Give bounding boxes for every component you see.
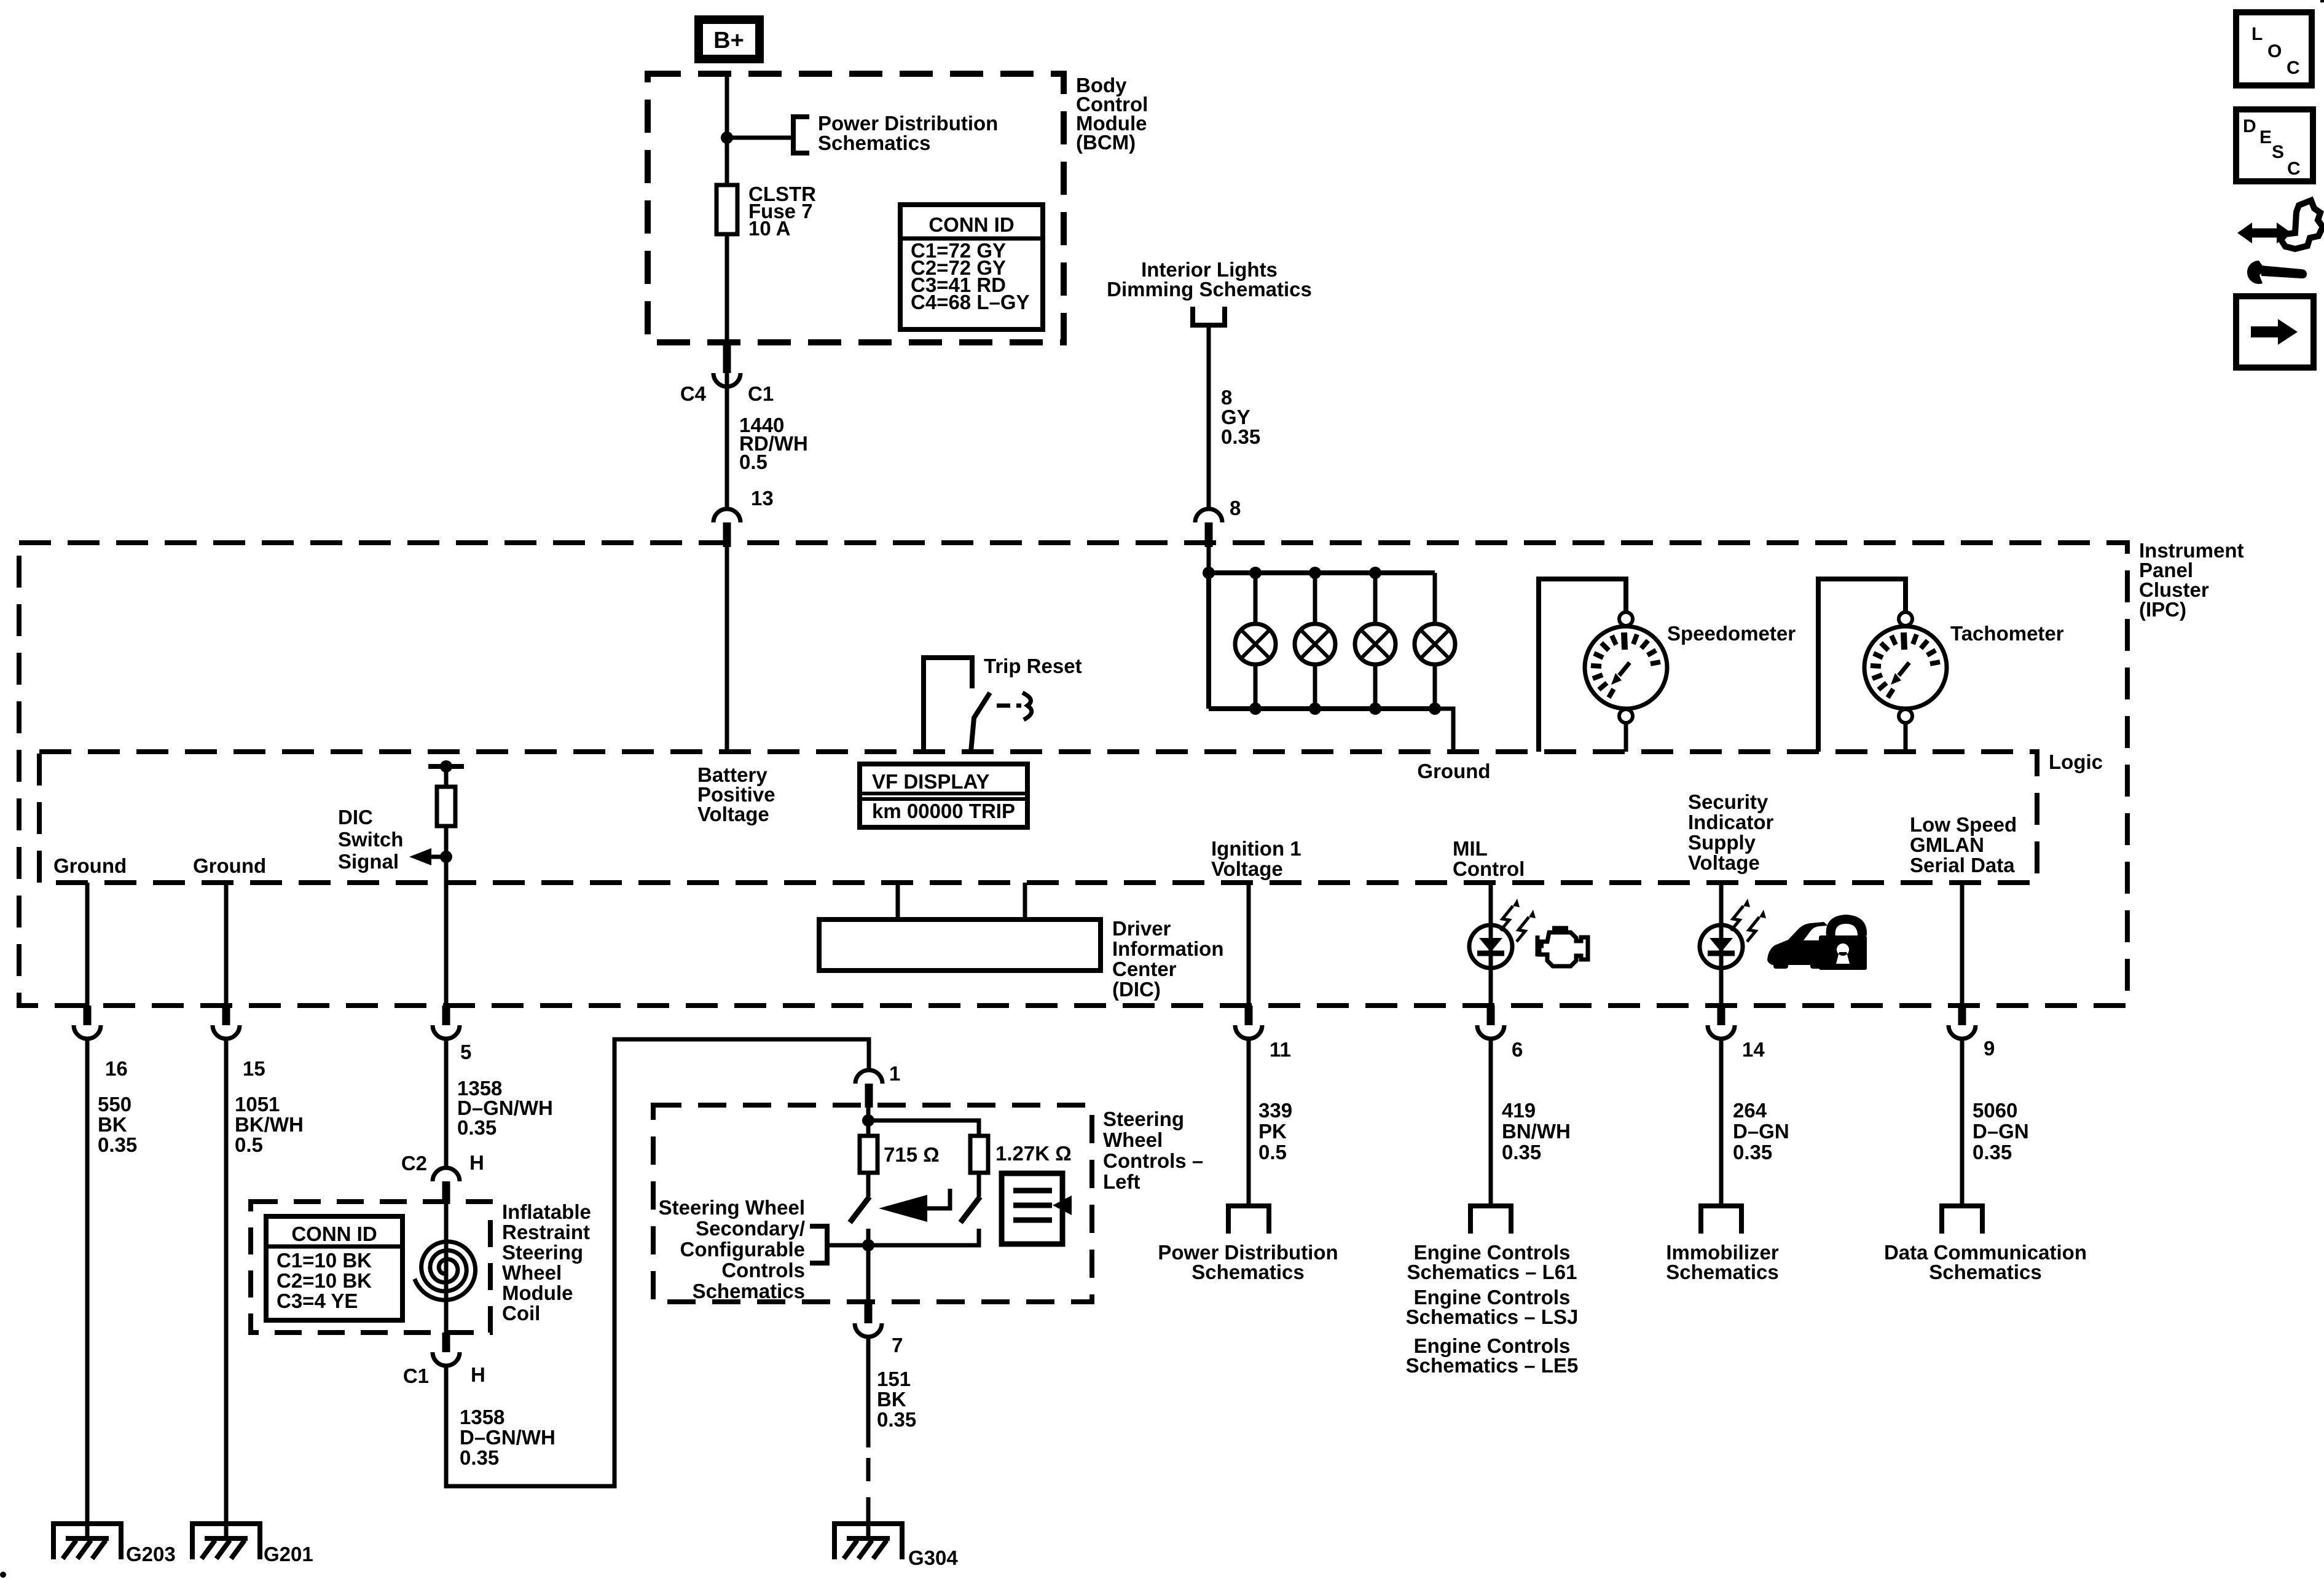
tachometer circuit wire bbox=[1818, 579, 1906, 752]
svg-text:G304: G304 bbox=[908, 1546, 958, 1569]
svg-text:8: 8 bbox=[1230, 497, 1241, 519]
connector pin 7 arc bbox=[855, 1323, 882, 1337]
wire into coil bbox=[444, 1203, 449, 1333]
junction dot lamp feed bbox=[1203, 567, 1215, 579]
svg-text:(BCM): (BCM) bbox=[1076, 131, 1136, 154]
svg-text:C2: C2 bbox=[401, 1152, 427, 1175]
svg-text:Schematics – LSJ: Schematics – LSJ bbox=[1406, 1305, 1579, 1328]
svg-text:Wheel: Wheel bbox=[502, 1261, 562, 1284]
off-page connector to Data Communication Schematics bbox=[1942, 1206, 1982, 1234]
svg-text:0.35: 0.35 bbox=[1733, 1141, 1772, 1164]
keypad icon bbox=[1002, 1173, 1062, 1244]
connector C4/C1 arc bbox=[713, 373, 740, 387]
svg-text:(IPC): (IPC) bbox=[2139, 598, 2186, 621]
svg-text:Control: Control bbox=[1453, 857, 1525, 880]
wire resistor 1.27K to switch 2 bbox=[977, 1173, 981, 1197]
svg-text:15: 15 bbox=[243, 1057, 265, 1080]
resistor DIC switch pull-up top bar bbox=[428, 764, 464, 769]
wire bracket to junction bbox=[827, 1243, 868, 1248]
svg-text:L: L bbox=[2251, 24, 2263, 44]
corner mark bbox=[2320, 0, 2324, 2]
svg-text:H: H bbox=[471, 1363, 485, 1386]
svg-text:VF DISPLAY: VF DISPLAY bbox=[872, 770, 989, 793]
wire pin 11 lower bbox=[1247, 1039, 1251, 1206]
fuse CLSTR Fuse 7 10 A bbox=[716, 185, 737, 234]
svg-text:G201: G201 bbox=[264, 1543, 313, 1565]
junction dot DIC switch signal bbox=[440, 851, 452, 863]
module box IPC (Instrument Panel Cluster) bbox=[19, 543, 2127, 1006]
svg-text:Voltage: Voltage bbox=[1211, 857, 1283, 880]
svg-text:Trip Reset: Trip Reset bbox=[984, 655, 1082, 677]
junction dot lamp 3 top bbox=[1369, 567, 1381, 579]
svg-text:Tachometer: Tachometer bbox=[1950, 622, 2064, 645]
stray dot bbox=[0, 1572, 6, 1578]
svg-text:km 00000 TRIP: km 00000 TRIP bbox=[872, 800, 1015, 822]
wire pin 14 lower bbox=[1719, 1039, 1724, 1206]
svg-text:BK: BK bbox=[98, 1113, 127, 1136]
junction dot B+ branch node bbox=[721, 132, 733, 144]
ground G203 bbox=[53, 1524, 121, 1559]
wire tachometer return bbox=[1904, 722, 1908, 752]
svg-text:Controls: Controls bbox=[721, 1259, 805, 1282]
svg-text:C4=68 L–GY: C4=68 L–GY bbox=[911, 291, 1030, 313]
wire fuse to BCM border bbox=[725, 234, 729, 342]
wire pin 11 ignition 1 voltage bbox=[1247, 883, 1251, 1006]
connector pin 13 arc bbox=[713, 509, 740, 522]
off-page connector Interior Lights bbox=[1193, 307, 1225, 325]
off-page connector Power Distribution Schematics bbox=[793, 117, 809, 153]
icon box arrow (next) bbox=[2236, 296, 2314, 368]
junction dot lamp 3 bottom bbox=[1369, 703, 1381, 715]
svg-text:14: 14 bbox=[1742, 1038, 1765, 1061]
wire branch to power distribution bbox=[727, 136, 793, 140]
svg-text:Center: Center bbox=[1112, 958, 1177, 980]
svg-text:Driver: Driver bbox=[1112, 917, 1171, 940]
svg-text:0.35: 0.35 bbox=[1502, 1141, 1541, 1164]
wire battery positive voltage bbox=[725, 547, 729, 752]
connector C2 stub bbox=[442, 1181, 450, 1203]
svg-text:Switch: Switch bbox=[338, 828, 403, 851]
wire to resistor 1.27K bbox=[868, 1120, 979, 1136]
module box Steering Wheel Controls - Left bbox=[653, 1105, 1092, 1302]
component box Driver Information Center bbox=[896, 883, 900, 919]
svg-text:GMLAN: GMLAN bbox=[1910, 833, 1984, 856]
svg-text:Indicator: Indicator bbox=[1688, 811, 1774, 833]
svg-text:Module: Module bbox=[502, 1282, 573, 1304]
svg-text:(DIC): (DIC) bbox=[1112, 978, 1161, 1001]
svg-text:Coil: Coil bbox=[502, 1302, 540, 1325]
wire switch return to pin 7 bbox=[866, 1245, 871, 1302]
wire switch1 lower contact bbox=[866, 1229, 871, 1245]
connector pin 8 arc bbox=[1195, 509, 1222, 522]
svg-text:419: 419 bbox=[1502, 1099, 1536, 1122]
svg-text:7: 7 bbox=[892, 1334, 903, 1357]
wire pin 6 lower bbox=[1489, 1039, 1493, 1206]
svg-text:H: H bbox=[469, 1151, 484, 1174]
svg-text:Logic: Logic bbox=[2049, 750, 2103, 773]
table CONN ID (coil) bbox=[266, 1216, 402, 1320]
connector C4/C1 stub bbox=[723, 342, 731, 373]
wire 151 BK dashed section bbox=[866, 1458, 871, 1509]
icon box LOC bbox=[2236, 12, 2312, 85]
table CONN ID (BCM) bbox=[900, 205, 1043, 329]
junction dot DIC pull-up bbox=[440, 760, 452, 773]
resistor 1.27K ohm bbox=[970, 1136, 988, 1173]
speedometer circuit wire bbox=[1539, 579, 1626, 752]
wire lamp left column bbox=[1206, 573, 1211, 709]
lamp E3 (illumination lamp) bbox=[1373, 573, 1378, 624]
svg-text:Schematics: Schematics bbox=[1666, 1261, 1778, 1283]
wire pin 5 DIC switch signal exit bbox=[444, 883, 449, 1006]
svg-text:DIC: DIC bbox=[338, 806, 373, 829]
icon box DESC bbox=[2236, 109, 2313, 181]
svg-text:Schematics: Schematics bbox=[1191, 1261, 1304, 1283]
wire lamp bottom bus bbox=[1209, 706, 1435, 711]
svg-text:BK: BK bbox=[877, 1388, 906, 1411]
wire 151 BK to G304 bbox=[866, 1337, 871, 1447]
svg-text:C1: C1 bbox=[748, 382, 774, 405]
junction dot switch return bbox=[862, 1239, 874, 1251]
svg-text:13: 13 bbox=[751, 487, 774, 510]
connector pin 8 stub bbox=[1205, 522, 1213, 547]
power symbol B+ bbox=[694, 15, 764, 63]
resistor 715 ohm bbox=[860, 1136, 877, 1173]
svg-text:Schematics – L61: Schematics – L61 bbox=[1407, 1261, 1577, 1283]
svg-text:0.5: 0.5 bbox=[235, 1133, 263, 1156]
switch blade SW2 bbox=[960, 1197, 980, 1223]
wire resistor to IPC exit bbox=[444, 826, 449, 883]
svg-text:E: E bbox=[2259, 127, 2272, 148]
junction dot lamp 4 bottom bbox=[1429, 703, 1441, 715]
svg-text:D–GN/WH: D–GN/WH bbox=[460, 1426, 555, 1449]
connector C2 arc bbox=[433, 1168, 460, 1181]
ground G201 bbox=[192, 1524, 260, 1559]
junction dot lamp 1 top bbox=[1249, 567, 1262, 579]
svg-text:5: 5 bbox=[460, 1041, 471, 1063]
svg-text:G203: G203 bbox=[126, 1543, 176, 1565]
gauge tachometer bbox=[1899, 612, 1912, 626]
svg-text:0.35: 0.35 bbox=[460, 1446, 499, 1469]
wire pin 14 security indicator bbox=[1719, 883, 1724, 925]
svg-text:Ground: Ground bbox=[1417, 760, 1490, 782]
switch blade Trip Reset bbox=[971, 693, 990, 752]
wire resistor 715 to switch 1 bbox=[866, 1173, 871, 1197]
svg-text:Serial Data: Serial Data bbox=[1910, 854, 2015, 876]
signal arrow DIC Switch Signal bbox=[430, 855, 446, 859]
lamp E4 (illumination lamp) bbox=[1433, 573, 1437, 624]
svg-text:Information: Information bbox=[1112, 937, 1223, 960]
svg-text:Inflatable: Inflatable bbox=[502, 1200, 591, 1223]
ground G304 bbox=[834, 1524, 902, 1559]
svg-text:Configurable: Configurable bbox=[680, 1238, 806, 1261]
wire pin 9 lower bbox=[1960, 1039, 1965, 1206]
wire 550 BK to G203 bbox=[85, 1039, 90, 1538]
svg-text:Controls –: Controls – bbox=[1103, 1149, 1203, 1172]
connector C1 arc bbox=[433, 1352, 460, 1366]
svg-text:Schematics: Schematics bbox=[818, 132, 930, 154]
svg-text:16: 16 bbox=[105, 1057, 128, 1080]
svg-text:O: O bbox=[2267, 41, 2282, 61]
svg-text:Voltage: Voltage bbox=[697, 803, 769, 825]
svg-text:Schematics: Schematics bbox=[1929, 1261, 2041, 1283]
svg-text:Steering: Steering bbox=[1103, 1108, 1184, 1130]
wire speedometer return bbox=[1624, 722, 1628, 752]
svg-text:Schematics: Schematics bbox=[693, 1280, 805, 1302]
svg-text:Schematics – LE5: Schematics – LE5 bbox=[1406, 1354, 1579, 1377]
svg-text:Ignition 1: Ignition 1 bbox=[1211, 837, 1301, 860]
svg-text:C3=4 YE: C3=4 YE bbox=[277, 1290, 358, 1312]
coil spiral (clockspring) bbox=[415, 1242, 476, 1300]
svg-text:PK: PK bbox=[1258, 1120, 1287, 1143]
wire lamp return to logic ground bbox=[1435, 709, 1453, 752]
wire 1358 routing to steering wheel controls bbox=[446, 1039, 869, 1486]
icon car with lock bbox=[1767, 915, 1867, 970]
svg-text:Wheel: Wheel bbox=[1103, 1128, 1163, 1151]
svg-text:C4: C4 bbox=[680, 382, 707, 405]
svg-text:6: 6 bbox=[1512, 1038, 1523, 1061]
off-page bracket Steering Wheel Secondary bbox=[810, 1226, 827, 1263]
svg-text:B+: B+ bbox=[713, 28, 744, 53]
svg-text:264: 264 bbox=[1733, 1099, 1767, 1122]
svg-text:0.35: 0.35 bbox=[877, 1408, 916, 1431]
svg-text:C1=10 BK: C1=10 BK bbox=[277, 1249, 372, 1272]
svg-text:0.35: 0.35 bbox=[1221, 425, 1260, 448]
svg-text:Left: Left bbox=[1103, 1170, 1140, 1193]
wire pin 16 ground bbox=[85, 883, 90, 1006]
junction dot switch feed bbox=[862, 1114, 874, 1127]
wire switch2 lower contact bbox=[868, 1229, 979, 1245]
svg-text:1358: 1358 bbox=[460, 1406, 504, 1428]
svg-text:Dimming Schematics: Dimming Schematics bbox=[1107, 278, 1312, 301]
icon car adjust (two-way arrow, car, wrench) bbox=[2237, 200, 2323, 284]
svg-text:Restraint: Restraint bbox=[502, 1221, 590, 1243]
svg-text:Ground: Ground bbox=[53, 854, 127, 877]
svg-text:C1: C1 bbox=[403, 1364, 429, 1387]
module box Inflatable Restraint Steering Wheel Module Coil bbox=[251, 1202, 490, 1333]
svg-text:1051: 1051 bbox=[235, 1093, 280, 1116]
svg-text:C: C bbox=[2287, 159, 2301, 179]
svg-text:D–GN: D–GN bbox=[1733, 1120, 1789, 1143]
svg-text:11: 11 bbox=[1270, 1038, 1291, 1061]
svg-text:Speedometer: Speedometer bbox=[1667, 622, 1796, 645]
off-page connector to Power Distribution Schematics bbox=[1228, 1206, 1269, 1234]
svg-text:S: S bbox=[2272, 142, 2284, 162]
icon engine (MIL) bbox=[1537, 928, 1588, 966]
wire 1051 BK/WH to G201 bbox=[224, 1039, 229, 1538]
svg-text:D: D bbox=[2243, 116, 2256, 136]
wire pin 8 to lamp bus bbox=[1207, 547, 1211, 573]
svg-text:550: 550 bbox=[98, 1093, 132, 1116]
svg-text:151: 151 bbox=[877, 1368, 911, 1390]
svg-text:0.35: 0.35 bbox=[98, 1133, 137, 1156]
LED MIL indicator bbox=[1469, 925, 1512, 968]
off-page connector to Engine Controls Schematics bbox=[1470, 1206, 1511, 1234]
svg-text:Steering: Steering bbox=[502, 1241, 583, 1264]
wire lamp top bus bbox=[1209, 570, 1435, 575]
switch linkage dashes bbox=[997, 704, 1010, 708]
svg-text:10 A: 10 A bbox=[748, 217, 790, 240]
svg-text:Signal: Signal bbox=[338, 850, 399, 873]
junction dot lamp 2 top bbox=[1309, 567, 1321, 579]
logic box bbox=[39, 752, 2037, 883]
svg-text:CONN ID: CONN ID bbox=[928, 213, 1014, 236]
svg-text:Ground: Ground bbox=[193, 854, 266, 877]
svg-text:Security: Security bbox=[1688, 790, 1769, 813]
svg-text:715 Ω: 715 Ω bbox=[884, 1143, 940, 1166]
svg-text:Secondary/: Secondary/ bbox=[696, 1217, 805, 1240]
svg-text:9: 9 bbox=[1984, 1037, 1995, 1060]
svg-text:BK/WH: BK/WH bbox=[235, 1113, 304, 1136]
LED security indicator bbox=[1700, 925, 1743, 968]
switch blade SW1 bbox=[850, 1197, 870, 1223]
wire pin1 node bbox=[866, 1108, 871, 1136]
svg-text:0.35: 0.35 bbox=[1973, 1141, 2012, 1164]
svg-text:C2=10 BK: C2=10 BK bbox=[277, 1269, 372, 1292]
off-page connector to Immobilizer Schematics bbox=[1701, 1206, 1741, 1234]
lamp E2 (illumination lamp) bbox=[1313, 573, 1317, 624]
connector pin 7 stub bbox=[865, 1302, 873, 1323]
wire pin 9 GMLAN serial data bbox=[1960, 883, 1965, 1006]
resistor R-DIC bbox=[437, 787, 455, 826]
module box BCM (Body Control Module) bbox=[648, 74, 1064, 342]
svg-text:Low Speed: Low Speed bbox=[1910, 813, 2017, 836]
junction dot lamp 1 bottom bbox=[1249, 703, 1262, 715]
connector pin 1 arc bbox=[855, 1070, 882, 1084]
actuator arrow bbox=[879, 1195, 927, 1222]
svg-text:MIL: MIL bbox=[1453, 837, 1488, 860]
svg-text:D–GN: D–GN bbox=[1973, 1120, 2029, 1143]
connector C1 stub bbox=[442, 1333, 450, 1352]
wire pin5 to C2 bbox=[444, 1039, 449, 1168]
wire 1440 RD/WH 0.5 bbox=[725, 373, 729, 509]
svg-text:0.35: 0.35 bbox=[457, 1116, 497, 1139]
display VF DISPLAY bbox=[860, 764, 1027, 827]
switch Trip Reset bbox=[924, 658, 972, 752]
svg-text:0.5: 0.5 bbox=[1258, 1141, 1287, 1164]
svg-text:C: C bbox=[2287, 58, 2300, 78]
lamp E1 (illumination lamp) bbox=[1254, 573, 1258, 624]
svg-text:BN/WH: BN/WH bbox=[1502, 1120, 1571, 1143]
svg-text:Supply: Supply bbox=[1688, 831, 1756, 854]
connector pin 13 stub bbox=[723, 522, 731, 547]
svg-text:Voltage: Voltage bbox=[1688, 851, 1760, 874]
wire pin 15 ground bbox=[224, 883, 229, 1006]
svg-text:5060: 5060 bbox=[1973, 1099, 2017, 1122]
wire 8 GY 0.35 bbox=[1207, 325, 1211, 509]
wire B+ feed inside BCM bbox=[725, 74, 729, 187]
gauge speedometer bbox=[1619, 612, 1633, 626]
wire pull-up to resistor bbox=[444, 766, 449, 787]
junction dot lamp 2 bottom bbox=[1309, 703, 1321, 715]
connector pin 1 stub bbox=[865, 1084, 873, 1108]
svg-text:1.27K Ω: 1.27K Ω bbox=[995, 1142, 1072, 1165]
svg-text:Steering Wheel: Steering Wheel bbox=[659, 1196, 805, 1219]
svg-text:1: 1 bbox=[889, 1062, 900, 1085]
wire pin 6 MIL control bbox=[1489, 883, 1493, 925]
svg-text:0.5: 0.5 bbox=[739, 451, 767, 473]
svg-text:CONN ID: CONN ID bbox=[291, 1223, 377, 1245]
svg-text:339: 339 bbox=[1258, 1099, 1292, 1122]
